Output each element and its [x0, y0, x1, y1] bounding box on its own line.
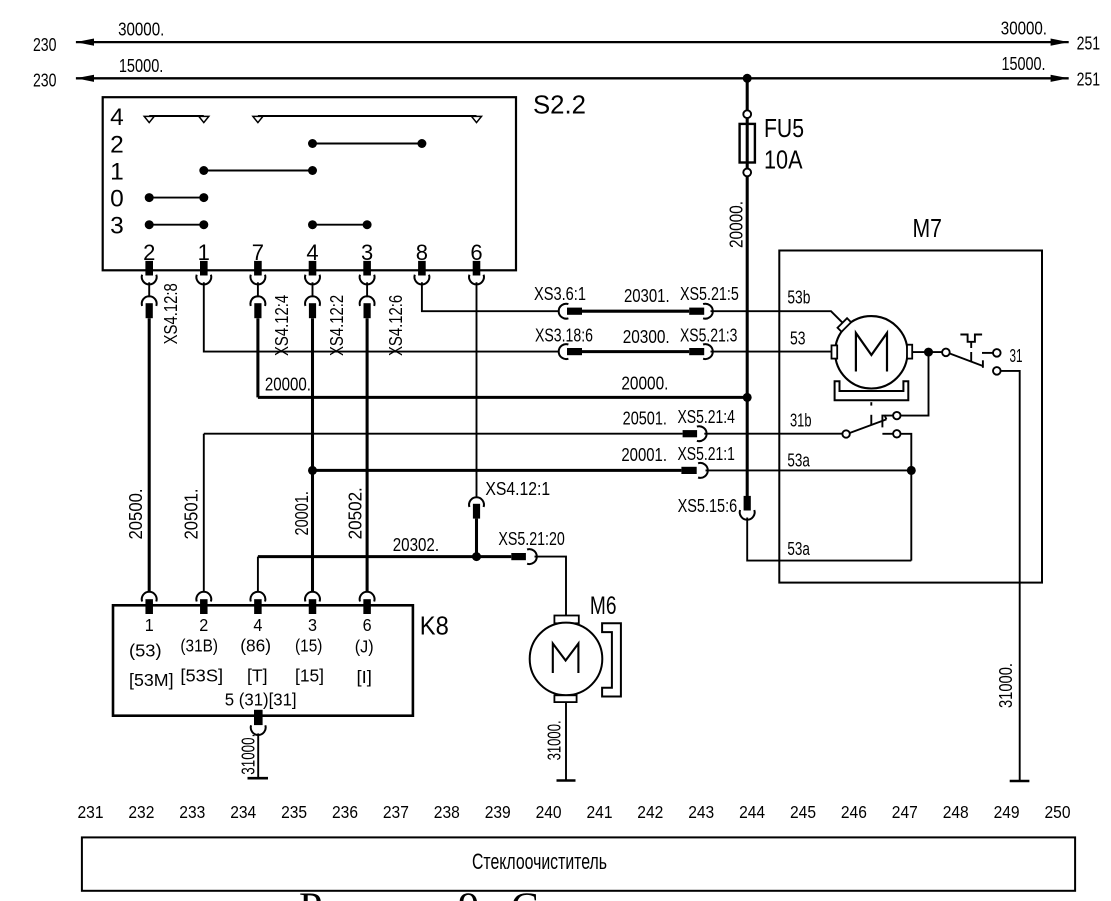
- svg-text:30000.: 30000.: [118, 19, 164, 40]
- junction 20302 / pin6 wire: [472, 552, 481, 561]
- svg-text:233: 233: [179, 802, 205, 822]
- wire 20500 (S2.2 pin2 to K8 pin1): [148, 318, 151, 591]
- wire 20501 vertical (to K8 pin2): [203, 434, 205, 592]
- svg-text:10A: 10A: [764, 145, 803, 175]
- svg-text:241: 241: [587, 802, 613, 822]
- svg-text:4: 4: [110, 104, 124, 131]
- S2.2 row 0 contact bar (pins 2-1): [145, 193, 209, 202]
- S2.2 pin 2: [145, 261, 153, 276]
- svg-text:XS5.21:1: XS5.21:1: [678, 443, 735, 464]
- motor M6 circle: [530, 623, 603, 696]
- svg-text:249: 249: [994, 802, 1020, 822]
- S2.2 pin 4: [309, 261, 317, 276]
- K8 pin 4 connector: [250, 592, 265, 614]
- svg-text:FU5: FU5: [764, 113, 804, 143]
- fuse FU5 terminal (bottom): [743, 169, 751, 177]
- svg-text:XS3.18:6: XS3.18:6: [535, 325, 593, 346]
- svg-text:240: 240: [536, 802, 562, 822]
- svg-text:238: 238: [434, 802, 460, 822]
- wire K8 pin5 to ground: [257, 733, 259, 777]
- park switch blade: [949, 353, 983, 366]
- svg-text:245: 245: [790, 802, 816, 822]
- svg-text:XS5.21:20: XS5.21:20: [498, 528, 565, 549]
- wire 20501 horizontal: [204, 433, 683, 435]
- svg-text:Рисунок 9. Стеклоочиститель: Рисунок 9. Стеклоочиститель: [299, 886, 838, 901]
- svg-text:[53M]: [53M]: [129, 670, 174, 690]
- connector XS5.21:20: [511, 549, 537, 564]
- svg-text:(86): (86): [240, 636, 271, 656]
- connector XS4.12:4: [250, 296, 265, 318]
- svg-text:K8: K8: [420, 611, 449, 641]
- svg-text:15000.: 15000.: [1001, 53, 1045, 74]
- junction 53a: [907, 466, 916, 475]
- svg-text:M7: M7: [913, 213, 943, 243]
- column scale numbers 231-250: [78, 802, 1071, 822]
- svg-text:234: 234: [230, 802, 256, 822]
- switch 31b lower contact stub: [882, 433, 893, 435]
- S2.2 row 3 contact bar (pins 4-3): [308, 220, 372, 229]
- svg-text:Стеклоочиститель: Стеклоочиститель: [472, 849, 607, 874]
- cam profile of park switch: [960, 335, 982, 342]
- wire 31b into M7: [704, 433, 842, 435]
- wire M6 to ground: [565, 702, 567, 780]
- wire (link to connector XS4.12:8): [148, 282, 150, 297]
- wire 20000 horizontal to FU5 line: [258, 396, 747, 399]
- S2.2 pin 7: [254, 261, 262, 276]
- wire 20302 horizontal: [258, 555, 511, 558]
- svg-text:53a: 53a: [787, 538, 810, 559]
- wire from S2.2 pin1 to connector XS3.18:6: [204, 282, 559, 351]
- connector XS3.18:6: [559, 344, 582, 359]
- S2.2 position labels 4 2 1 0 3: [110, 104, 124, 240]
- svg-text:31000.: 31000.: [238, 734, 259, 775]
- svg-text:243: 243: [688, 802, 714, 822]
- switch S2.2 body: [103, 97, 516, 270]
- motor M7 circle: [835, 316, 907, 388]
- svg-text:1: 1: [110, 158, 124, 185]
- connector XS3.6:1: [559, 304, 582, 319]
- svg-text:[T]: [T]: [247, 666, 268, 686]
- svg-text:230: 230: [33, 34, 57, 55]
- svg-text:6: 6: [363, 615, 372, 635]
- svg-text:3: 3: [308, 615, 317, 635]
- S2.2 row 1 contact bar (pins 1-4): [199, 166, 317, 175]
- wire net 15000 arrow: [76, 75, 1069, 82]
- wire (link to connector XS4.12:4): [257, 282, 259, 297]
- connector XS4.12:2: [305, 296, 320, 318]
- connector socket on S2.2 pin 7: [250, 275, 265, 285]
- park switch fixed contact stub (upper): [982, 352, 993, 354]
- S2.2 pin numbers 2 1 7 4 3 8 6: [143, 240, 483, 265]
- svg-text:XS5.21:3: XS5.21:3: [680, 325, 738, 346]
- svg-text:4: 4: [253, 615, 262, 635]
- K8 pin 6 connector: [360, 592, 375, 614]
- svg-text:31: 31: [1010, 345, 1023, 366]
- svg-text:30000.: 30000.: [1001, 18, 1047, 39]
- S2.2 row 2 contact bar (pins 4-8): [308, 139, 426, 148]
- wire XS4.12:1 to 20302 junction: [475, 519, 478, 557]
- connector socket on S2.2 pin 4: [305, 275, 320, 285]
- wire 20302 vertical to K8 pin4: [257, 557, 259, 592]
- connector XS5.21:1: [681, 463, 707, 478]
- wire net 31 to ground: [1001, 371, 1020, 781]
- svg-text:236: 236: [332, 802, 358, 822]
- svg-text:XS4.12:2: XS4.12:2: [326, 295, 347, 356]
- K8 pin 2 connector: [196, 592, 211, 614]
- junction at motor right brush: [924, 348, 933, 357]
- svg-text:15000.: 15000.: [119, 55, 164, 76]
- svg-text:237: 237: [383, 802, 409, 822]
- switch 31b upper contact circle: [893, 412, 900, 419]
- wire 53b into M7: [711, 311, 848, 327]
- svg-text:20500.: 20500.: [125, 488, 146, 539]
- svg-text:20501.: 20501.: [623, 408, 667, 429]
- motor M7 housing bracket: [835, 381, 909, 400]
- connector XS5.21:5: [689, 304, 713, 319]
- svg-text:(53): (53): [129, 641, 162, 661]
- wire 53a (lower) from XS5.15:6: [747, 518, 911, 561]
- wire (link to connector XS4.12:6): [366, 282, 368, 297]
- connector socket on S2.2 pin 6: [469, 275, 484, 285]
- svg-text:XS5.15:6: XS5.15:6: [678, 495, 738, 516]
- K8 pin 5: [254, 710, 263, 725]
- svg-text:XS3.6:1: XS3.6:1: [534, 283, 586, 304]
- motor M7 brush (right): [907, 345, 912, 359]
- svg-text:20301.: 20301.: [624, 285, 670, 306]
- svg-text:232: 232: [128, 802, 154, 822]
- svg-text:XS5.21:4: XS5.21:4: [678, 406, 735, 427]
- wire from XS5.21:20 to M6: [535, 557, 567, 616]
- svg-text:1: 1: [145, 615, 154, 635]
- svg-text:31b: 31b: [790, 410, 812, 431]
- svg-text:[53S]: [53S]: [180, 666, 223, 686]
- svg-text:53b: 53b: [787, 286, 810, 307]
- svg-text:242: 242: [637, 802, 663, 822]
- wire 20502 (S2.2 pin3 to K8 pin6): [366, 318, 369, 591]
- svg-text:(15): (15): [295, 636, 322, 656]
- svg-text:20000.: 20000.: [621, 373, 668, 394]
- function box Стеклоочиститель: [82, 837, 1075, 890]
- svg-text:247: 247: [892, 802, 918, 822]
- park switch blade tip tick: [982, 360, 984, 368]
- svg-text:235: 235: [281, 802, 307, 822]
- svg-text:XS4.12:4: XS4.12:4: [271, 295, 292, 356]
- wire lower contact to 53a junction: [901, 434, 912, 561]
- motor unit M7 body: [779, 251, 1042, 583]
- wire 53a into M7: [706, 469, 912, 471]
- mechanical link dashes (motor to park switch): [870, 402, 872, 424]
- wire (link to connector XS4.12:2): [312, 282, 314, 297]
- S2.2 row 4 contact bar (pins 2-1): [144, 116, 209, 123]
- wire 20001 horizontal: [313, 469, 682, 472]
- wire 20301: [582, 310, 689, 313]
- switch 31b lower contact circle: [893, 430, 900, 437]
- park switch fixed contact circle (lower, net 31): [993, 367, 1001, 375]
- K8 pin 3 connector: [305, 592, 320, 614]
- fuse FU5 terminal (top): [743, 110, 751, 118]
- connector XS4.12:8: [142, 296, 157, 318]
- svg-text:248: 248: [943, 802, 969, 822]
- wire net 30000 arrow: [76, 39, 1069, 46]
- connector XS5.21:3: [689, 344, 713, 359]
- wire from S2.2 pin8 to connector XS3.6:1: [422, 282, 559, 311]
- svg-text:5 (31)[31]: 5 (31)[31]: [225, 690, 297, 710]
- svg-text:XS4.12:6: XS4.12:6: [385, 295, 406, 356]
- wire 20001 (S2.2 pin4 to K8 pin3): [311, 318, 314, 591]
- ground (M6): [557, 779, 576, 782]
- svg-text:XS5.21:5: XS5.21:5: [680, 283, 739, 304]
- svg-text:53a: 53a: [787, 450, 810, 471]
- motor M7 brush 53 (left): [832, 345, 838, 358]
- connector socket on S2.2 pin 1: [196, 275, 211, 285]
- park switch moving contact: [942, 349, 950, 357]
- svg-text:3: 3: [110, 213, 124, 240]
- ground (net 31): [1010, 780, 1030, 783]
- relay K8 body: [113, 605, 413, 715]
- svg-text:20300.: 20300.: [623, 326, 670, 347]
- svg-text:31000.: 31000.: [544, 720, 565, 760]
- motor M6 housing bracket: [602, 623, 621, 696]
- svg-text:S2.2: S2.2: [533, 90, 586, 120]
- connector socket on K8 pin 5: [251, 725, 266, 735]
- svg-text:244: 244: [739, 802, 765, 822]
- connector XS5.15:6: [740, 496, 755, 520]
- motor M7 letter M: [856, 333, 887, 372]
- svg-text:(31В): (31В): [180, 636, 218, 656]
- S2.2 pin 6: [473, 261, 481, 276]
- junction on net 15000 feeding FU5: [743, 74, 752, 83]
- svg-text:20001.: 20001.: [621, 444, 667, 465]
- svg-text:XS4.12:1: XS4.12:1: [485, 478, 550, 499]
- wire junction down to 31b switch contact: [901, 352, 929, 416]
- cam link dashes: [970, 342, 972, 362]
- wire from S2.2 pin6 down to XS4.12:1: [476, 282, 478, 498]
- connector XS4.12:1: [469, 497, 484, 518]
- svg-text:2: 2: [199, 615, 208, 635]
- svg-text:31000.: 31000.: [995, 663, 1016, 708]
- switch 31b blade: [850, 419, 887, 433]
- connector socket on S2.2 pin 3: [360, 275, 375, 285]
- motor M6 brush (bottom): [554, 695, 576, 702]
- svg-text:20000.: 20000.: [265, 373, 311, 394]
- S2.2 pin 8: [418, 261, 426, 276]
- svg-text:239: 239: [485, 802, 511, 822]
- junction 20000 / FU5 line: [743, 393, 752, 402]
- svg-text:M6: M6: [590, 592, 617, 620]
- svg-text:246: 246: [841, 802, 867, 822]
- svg-text:20501.: 20501.: [180, 488, 201, 539]
- S2.2 pin 1: [200, 261, 208, 276]
- svg-text:(J): (J): [355, 637, 374, 657]
- wire net 15000 to FU5: [746, 78, 749, 110]
- connector XS4.12:6: [360, 296, 375, 318]
- wire 53 into M7 to motor brush: [711, 351, 832, 353]
- motor M6 brush (top): [554, 616, 578, 624]
- switch 31b left contact: [842, 430, 849, 437]
- svg-text:20302.: 20302.: [393, 534, 439, 555]
- connector socket on S2.2 pin 8: [414, 275, 429, 285]
- K8 pin 1 connector: [142, 592, 157, 614]
- svg-text:53: 53: [790, 328, 806, 349]
- S2.2 row 3 contact bar (pins 2-1): [145, 220, 209, 229]
- svg-text:20000.: 20000.: [726, 201, 747, 248]
- connector socket on S2.2 pin 2: [142, 275, 157, 285]
- S2.2 pin 3: [363, 261, 371, 276]
- wire 20300: [582, 350, 689, 353]
- switch 31b blade tip hook: [885, 415, 887, 419]
- svg-text:250: 250: [1045, 802, 1071, 822]
- motor M7 brush 53b (top-left): [838, 318, 852, 332]
- svg-text:251: 251: [1077, 32, 1101, 53]
- svg-text:231: 231: [78, 802, 104, 822]
- motor M6 letter M: [553, 644, 579, 674]
- svg-text:230: 230: [33, 70, 57, 91]
- svg-text:2: 2: [110, 131, 124, 158]
- ground (K8 pin5): [248, 777, 269, 780]
- wire motor right brush to park switch: [912, 351, 942, 353]
- wire 20000 (S2.2 pin7 down): [256, 318, 259, 397]
- connector XS5.21:4: [683, 426, 707, 441]
- switch 31b upper contact tick: [882, 416, 893, 428]
- wire 20000 vertical: [746, 176, 749, 496]
- junction 20001 branch: [308, 466, 317, 475]
- svg-text:XS4.12:8: XS4.12:8: [160, 283, 181, 344]
- svg-text:20502.: 20502.: [344, 487, 365, 539]
- svg-text:0: 0: [110, 185, 124, 212]
- svg-text:20001.: 20001.: [291, 491, 312, 535]
- svg-text:[15]: [15]: [295, 666, 324, 686]
- park switch fixed contact circle (upper): [993, 349, 1001, 357]
- fuse FU5 body: [740, 118, 755, 168]
- svg-text:251: 251: [1077, 68, 1101, 89]
- S2.2 row 4 contact bar (pins 7-6): [253, 116, 482, 123]
- svg-text:[I]: [I]: [357, 667, 372, 687]
